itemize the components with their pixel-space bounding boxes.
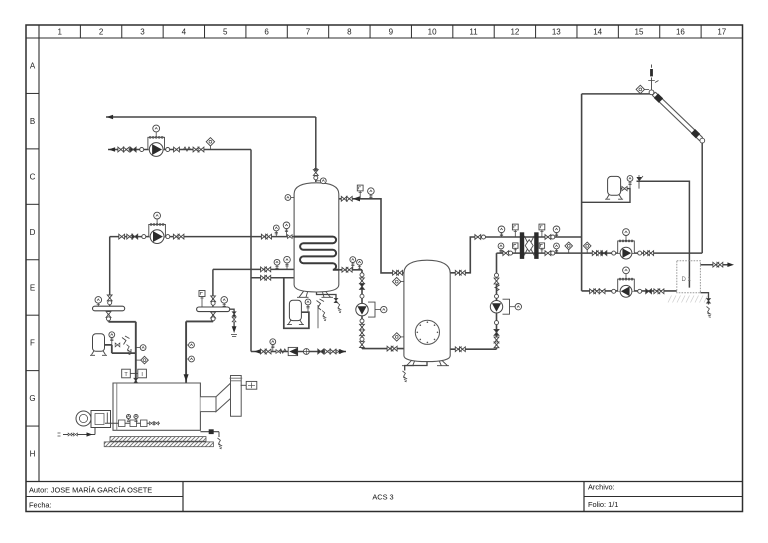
pressure gauge P9g	[307, 305, 309, 312]
valve V40	[545, 251, 551, 256]
valve V45	[590, 289, 596, 294]
flange F15	[509, 251, 513, 255]
svg-text:Autor: JOSE MARÍA GARCÍA OSETE: Autor: JOSE MARÍA GARCÍA OSETE	[29, 485, 152, 494]
valve V2	[123, 147, 129, 152]
drain valve V53	[707, 298, 711, 303]
tank T2 (DHW storage tank)	[404, 260, 450, 361]
safety valve group EV1	[122, 336, 130, 345]
check valve R4	[494, 330, 499, 336]
pressure gauge P3g	[541, 230, 543, 237]
thermometer T9g	[359, 265, 361, 270]
solar collector panel	[655, 92, 702, 138]
thermometer T3g	[276, 265, 278, 269]
valve V64	[330, 349, 336, 354]
flange F19	[612, 289, 616, 293]
pressure gauge P10g	[272, 345, 274, 352]
pressure gauge P4g	[514, 248, 516, 253]
pipe: left collector to boiler outlet 1	[109, 311, 136, 383]
flange F23	[211, 301, 215, 305]
valve V35	[494, 337, 499, 343]
flex joint	[184, 147, 191, 151]
valve V20	[342, 267, 348, 272]
flange F20	[638, 289, 642, 293]
thermometer T12g	[500, 249, 502, 253]
valve V23	[360, 324, 365, 330]
gas supply line	[63, 434, 95, 436]
svg-text:15: 15	[635, 28, 644, 37]
drain funnel T1	[337, 303, 341, 313]
valve V26	[387, 346, 393, 351]
valve V60	[261, 349, 267, 354]
valve V30	[455, 270, 461, 275]
thermometer T8g	[352, 263, 354, 270]
thermometer T7g	[370, 194, 372, 198]
drain valve T1	[334, 298, 338, 302]
flange F9	[360, 337, 364, 341]
check valve R6	[646, 289, 652, 294]
valve V50	[622, 186, 627, 190]
svg-text:4: 4	[182, 28, 187, 37]
pipe: exchanger drop to pump and tank T2 bottom	[450, 253, 496, 349]
valve V36	[494, 342, 499, 348]
svg-text:G: G	[29, 394, 35, 403]
pressure gauge P6g	[629, 181, 631, 188]
flange F16	[551, 251, 555, 255]
svg-text:H: H	[30, 450, 36, 459]
thermometer T17g	[186, 344, 189, 346]
valve V62	[276, 350, 281, 354]
valve V13	[261, 267, 267, 272]
valve V43	[644, 251, 650, 256]
svg-text:D 1: D 1	[682, 277, 692, 283]
flex joint	[495, 284, 499, 291]
flow gauge D7g	[136, 359, 141, 361]
pipe: tank T2 to heat exchanger (upper)	[450, 237, 581, 273]
pipe: right collector safety discharge	[230, 309, 234, 327]
thermometer T6g	[291, 197, 294, 199]
svg-text:1: 1	[57, 28, 62, 37]
pump B2 (boiler circuit, row D)	[149, 224, 166, 236]
valve V22	[360, 278, 365, 284]
valve V24	[360, 330, 365, 336]
thermometer T5g	[317, 180, 321, 182]
svg-text:5: 5	[223, 28, 228, 37]
valve V16	[265, 275, 271, 280]
burner gas train	[105, 422, 160, 424]
valve V34	[494, 278, 499, 284]
valve V33	[460, 347, 466, 352]
drain funnel	[707, 307, 712, 318]
flange F13	[482, 235, 486, 239]
flex joint	[279, 349, 286, 353]
valve V7	[127, 234, 133, 239]
valve V48	[654, 289, 660, 294]
safety valve S1	[636, 175, 643, 181]
valve V56	[211, 296, 216, 302]
valve V61	[265, 349, 271, 354]
pressure gauge P7g	[201, 297, 203, 308]
valve V58	[232, 317, 236, 322]
valve V21	[346, 267, 352, 272]
svg-text:D: D	[30, 228, 36, 237]
boiler body	[113, 383, 200, 430]
drain/fill tank D1	[677, 261, 701, 293]
pipe: boiler flow line to tank T1 (row D)	[110, 236, 294, 238]
flow gauge D4g	[401, 336, 404, 338]
flange F4	[166, 235, 170, 239]
svg-text:C: C	[30, 172, 36, 181]
hatching under D1	[668, 296, 672, 303]
check valve R2	[132, 234, 138, 239]
valve V39	[503, 251, 509, 256]
valve V10	[261, 234, 267, 239]
pipe: solar collector supply header	[582, 93, 650, 95]
flow arrow	[254, 349, 261, 354]
valve V59	[115, 343, 120, 347]
pipe: safety line over vessel and dip tube to D1	[637, 181, 690, 287]
right boiler collector manifold	[197, 307, 230, 312]
pressure gauge P8g	[111, 338, 113, 345]
valve V49	[658, 289, 664, 294]
valve V15	[261, 275, 267, 280]
pipe: recirculation line with pump B1 (row C)	[108, 149, 251, 151]
valve V9	[178, 234, 184, 239]
pipe: riser to tank T1 top	[315, 117, 317, 182]
boiler flue and chimney stack	[200, 397, 216, 412]
flow arrow right	[339, 349, 346, 354]
flange F10	[495, 273, 499, 277]
valve V1	[118, 147, 124, 152]
expansion vessel EV1 (boiler circuit)	[93, 334, 105, 352]
check valve R1	[130, 147, 136, 152]
svg-text:Archivo:: Archivo:	[588, 483, 615, 492]
pipe: expansion vessel branch	[582, 189, 630, 203]
pipe: right collector to boiler inlet	[186, 312, 213, 383]
pipe: tank T1 drain	[317, 292, 337, 301]
flange F6	[360, 273, 364, 277]
svg-text:3: 3	[140, 28, 145, 37]
pipe: D1 drain	[700, 293, 708, 305]
thermometer T16g	[136, 347, 140, 349]
valve V17	[313, 170, 318, 176]
valve V37	[475, 235, 481, 240]
svg-text:10: 10	[428, 28, 437, 37]
valve V12	[287, 235, 292, 239]
flue gas analyzer box	[246, 381, 257, 389]
flange F18	[638, 251, 642, 255]
valve V65	[336, 350, 340, 354]
pipe: tank T2 to tank T1 transfer	[339, 199, 404, 273]
pipe: cold water make-up line (bottom)	[251, 351, 346, 353]
svg-text:A: A	[30, 62, 36, 71]
flange F7	[360, 294, 364, 298]
vent tip	[315, 168, 317, 172]
flange F21	[108, 301, 112, 305]
safety valve group solar	[645, 88, 650, 90]
valve V63	[325, 349, 331, 354]
valve V18	[341, 196, 347, 201]
valve V14	[265, 267, 271, 272]
check valve R5	[601, 251, 607, 256]
svg-text:17: 17	[717, 28, 726, 37]
pipe: collector return drop	[701, 143, 703, 254]
valve V5	[198, 147, 204, 152]
flow gauge D5g	[568, 250, 570, 253]
plate heat exchanger IC1	[520, 232, 524, 259]
flange F3	[142, 235, 146, 239]
valve V4	[193, 147, 199, 152]
pipe: drop to left collector	[109, 237, 111, 307]
filter FT1	[288, 347, 297, 355]
pipe: heat exchanger lower line to solar pump	[497, 252, 703, 254]
valve V47	[599, 289, 605, 294]
flange F17	[612, 251, 616, 255]
flange F14	[551, 235, 555, 239]
left boiler collector manifold	[93, 306, 125, 311]
pipe: solar riser x=581	[582, 94, 677, 291]
pipe: coil outlet to circulator pump	[339, 270, 404, 349]
pressure gauge P5g	[541, 248, 543, 253]
flange F1	[140, 148, 144, 152]
burner blower	[76, 411, 91, 426]
valve V46	[594, 289, 600, 294]
thermometer T13g	[556, 249, 558, 253]
boiler drain valve	[200, 431, 219, 433]
valve V51	[713, 262, 719, 267]
flange F5	[314, 176, 318, 180]
valve V54	[107, 295, 112, 301]
collector inlet node	[649, 90, 654, 95]
svg-text:7: 7	[306, 28, 311, 37]
valve V28	[393, 270, 399, 275]
thermometer T4g	[286, 263, 288, 269]
valve V27	[391, 346, 397, 351]
safety valve group EV2	[317, 299, 325, 310]
pump B4 (exchanger secondary)	[618, 279, 635, 291]
tank T1 (buffer tank with coil)	[294, 183, 339, 292]
valve V52	[717, 262, 723, 267]
check valve R8	[318, 349, 324, 354]
svg-text:13: 13	[552, 28, 561, 37]
thermometer T1g	[275, 231, 277, 237]
flow gauge D3g	[401, 281, 404, 283]
valve V19	[346, 196, 352, 201]
thermometer T10g	[501, 233, 503, 237]
svg-text:6: 6	[264, 28, 269, 37]
flange F22	[107, 317, 111, 321]
pump B1 (recirculation, row C)	[148, 137, 165, 149]
svg-text:F: F	[30, 339, 35, 348]
inline pump B5 (coil circuit)	[356, 303, 368, 315]
thermometer T15g	[223, 303, 225, 307]
flow arrow into T1	[353, 196, 360, 201]
check valve R3	[360, 284, 365, 290]
flow gauge D6g	[586, 250, 588, 253]
thermometer T14g	[97, 303, 99, 306]
svg-text:8: 8	[347, 28, 352, 37]
svg-text:11: 11	[469, 28, 478, 37]
flange F24	[211, 317, 215, 321]
pipe: cold feed branch to tank T1	[251, 277, 294, 279]
pipe: tank T2 drain	[405, 360, 427, 371]
safety discharge arrow	[232, 326, 237, 333]
dark valve at boiler outlet	[134, 378, 138, 383]
instrument boxes T/I	[122, 369, 131, 378]
inline pump B6 (exchanger-tank)	[490, 301, 502, 313]
flange F8	[360, 319, 364, 323]
svg-text:16: 16	[676, 28, 685, 37]
thermometer T2g	[286, 229, 288, 237]
flow arrow into boiler	[184, 374, 189, 381]
flange F2	[166, 148, 170, 152]
water meter	[303, 349, 309, 355]
flow gauge D1g	[209, 146, 211, 150]
pipe: boiler flow line 2 to coil (row E)	[213, 268, 294, 270]
flange F11	[495, 294, 499, 298]
svg-text:Folio: 1/1: Folio: 1/1	[588, 500, 618, 509]
pipe: drop to right collector	[212, 269, 214, 307]
pipe: D1 outlet to consumption	[700, 264, 731, 266]
svg-text:2: 2	[99, 28, 104, 37]
pipe: branch to safety group under T1	[284, 278, 309, 329]
thermometer T11g	[556, 233, 558, 237]
valve V31	[460, 270, 466, 275]
valve V6	[119, 234, 125, 239]
valve V44	[648, 251, 654, 256]
pipe: expansion vessel EV1 connection	[105, 345, 136, 353]
pressure gauge P2g	[514, 230, 516, 237]
pressure gauge P1g	[359, 191, 361, 199]
drain funnel T2	[403, 371, 408, 382]
svg-text:B: B	[30, 117, 35, 126]
manhole flange on tank T2	[415, 320, 439, 344]
check valve R7	[232, 312, 236, 317]
flange F12	[495, 321, 499, 325]
svg-text:12: 12	[510, 28, 519, 37]
svg-text:ACS 3: ACS 3	[372, 493, 393, 502]
valve V8	[173, 234, 179, 239]
valve V38	[545, 235, 551, 240]
expansion vessel EV3 (solar circuit)	[608, 176, 621, 195]
pipe: return line to consumers (row B)	[106, 116, 316, 118]
heating coil inside tank T1	[294, 237, 339, 270]
valve V11	[266, 234, 272, 239]
valve V25	[360, 342, 365, 348]
svg-text:E: E	[30, 283, 35, 292]
svg-text:9: 9	[389, 28, 394, 37]
valve V41	[592, 251, 598, 256]
svg-text:Fecha:: Fecha:	[29, 500, 52, 509]
valve V29	[397, 270, 403, 275]
valve V32	[455, 347, 461, 352]
pump B3 (exchanger primary)	[618, 241, 635, 253]
valve V42	[597, 251, 603, 256]
air vent / thermometer on collector	[651, 78, 653, 90]
valve V57	[211, 312, 216, 318]
valve V55	[106, 312, 111, 318]
expansion vessel EV2 (under tank T1)	[289, 300, 301, 320]
pipe: vertical main x=251	[250, 150, 252, 352]
thermometer T18g	[186, 358, 189, 360]
valve V3	[174, 147, 180, 152]
svg-text:14: 14	[593, 28, 602, 37]
